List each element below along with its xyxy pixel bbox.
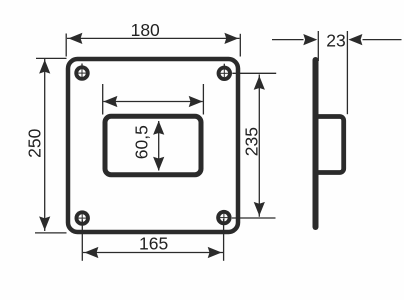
svg-text:60,5: 60,5	[132, 125, 152, 159]
mounting hole top-left	[74, 64, 89, 81]
mounting hole top-right	[217, 64, 232, 81]
svg-text:23: 23	[326, 30, 345, 50]
dimension 180 (top width)	[66, 20, 240, 57]
dimension 60,5 (inner height)	[132, 121, 165, 171]
dimension inner width (unlabeled)	[103, 84, 204, 115]
dimension 23 (depth)	[272, 30, 402, 114]
dimension 235 (right hole spacing)	[232, 73, 276, 218]
side view bracket rail	[319, 117, 344, 173]
plate outline (front view)	[68, 59, 238, 232]
dimension 250 (left height)	[24, 58, 66, 233]
svg-text:165: 165	[139, 234, 168, 254]
dimension 165 (bottom hole spacing)	[82, 219, 223, 261]
mounting hole bottom-left	[75, 210, 90, 225]
svg-text:180: 180	[131, 20, 160, 40]
mounting hole bottom-right	[216, 210, 231, 225]
svg-text:235: 235	[242, 127, 262, 156]
svg-text:250: 250	[24, 128, 44, 157]
inner cutout rectangle	[105, 116, 201, 174]
side view main bar (plate profile)	[313, 60, 319, 227]
